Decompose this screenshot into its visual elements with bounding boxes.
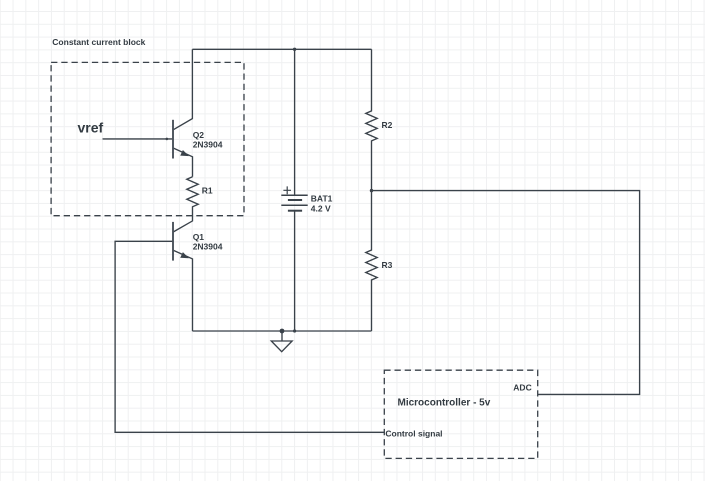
svg-text:2N3904: 2N3904	[193, 139, 223, 149]
svg-text:2N3904: 2N3904	[193, 241, 223, 251]
svg-text:R2: R2	[382, 120, 393, 130]
svg-text:Microcontroller - 5v: Microcontroller - 5v	[398, 397, 491, 408]
svg-text:ADC: ADC	[513, 383, 531, 393]
svg-text:R1: R1	[202, 186, 213, 196]
svg-text:Constant current block: Constant current block	[52, 37, 145, 47]
svg-text:Control signal: Control signal	[385, 428, 442, 438]
svg-text:R3: R3	[382, 260, 393, 270]
svg-text:vref: vref	[78, 120, 104, 136]
svg-text:BAT1: BAT1	[311, 194, 333, 204]
svg-text:4.2 V: 4.2 V	[311, 204, 331, 214]
